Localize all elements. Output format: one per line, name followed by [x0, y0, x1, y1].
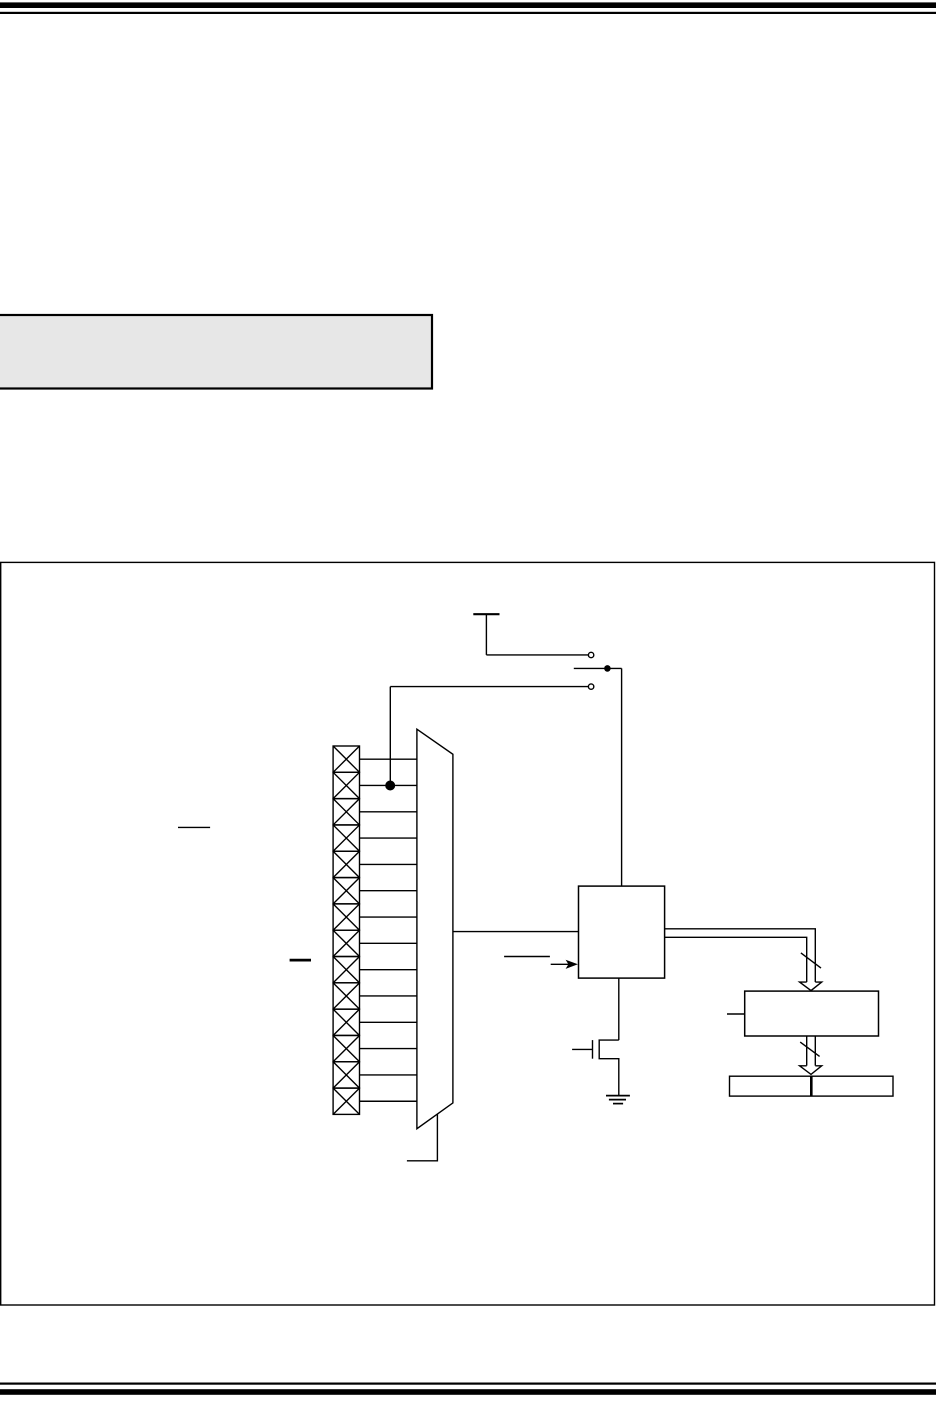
resistor ladder cell 7 (crossed box) [333, 904, 359, 930]
resistor ladder cell 8 (crossed box) [333, 930, 359, 956]
wire: ladder tap 14 to mux input [360, 1100, 418, 1102]
wire: ADC bottom to transistor drain [618, 978, 620, 1040]
figure frame [1, 562, 935, 1305]
wire: ladder tap 10 to mux input [360, 995, 418, 997]
register 1 left lead line [727, 1013, 745, 1015]
switch throw contact B (open circle) [588, 684, 593, 689]
bus width slash 1 [801, 953, 821, 968]
junction dot on switch pole [604, 665, 611, 672]
resistor ladder cell 6 (crossed box) [333, 878, 359, 904]
wire: ladder tap 6 to mux input [360, 890, 418, 892]
resistor ladder cell 9 (crossed box) [333, 957, 359, 983]
bus width slash 2 [800, 1042, 819, 1056]
bus arrowhead 2 (hollow) [800, 1066, 822, 1075]
wire: ladder tap 3 to mux input [360, 811, 418, 813]
transistor (N-MOSFET sampling switch) [572, 1040, 619, 1095]
label dash (left column) [290, 959, 311, 962]
register pair box (split high:low) [730, 1076, 894, 1096]
wire: ladder tap 7 to mux input [360, 916, 418, 918]
switch throw contact A (open circle) [588, 652, 593, 657]
resistor ladder cell 1 (crossed box) [333, 746, 359, 772]
resistor ladder cell 11 (crossed box) [333, 1009, 359, 1035]
label overline (left column) [178, 826, 210, 828]
wire: vertical down to ladder tap 2 [389, 687, 391, 786]
note box (shaded) [0, 315, 432, 389]
signal label overline (GO/DONE) [504, 956, 550, 958]
resistor ladder cell 5 (crossed box) [333, 851, 359, 877]
wire: mux select input (bottom) [407, 1114, 438, 1161]
wire: switch throw B to ladder tap (horizontal) [390, 686, 588, 688]
wire: ladder tap 2 to mux input [360, 784, 418, 786]
header rule thin [0, 12, 936, 14]
resistor ladder cell 10 (crossed box) [333, 983, 359, 1009]
switch pole wire [574, 667, 622, 669]
power rail VDD symbol [473, 614, 499, 655]
wire: ladder tap 12 to mux input [360, 1048, 418, 1050]
ground symbol [606, 1096, 630, 1104]
resistor ladder cell 14 (crossed box) [333, 1088, 359, 1114]
wire: mux output to ADC block [453, 931, 579, 933]
resistor ladder cell 2 (crossed box) [333, 772, 359, 798]
analog mux (trapezoid) [417, 729, 453, 1128]
bus arrowhead 1 (hollow) [800, 982, 822, 991]
bus: ADC output to result register (double line) [665, 929, 816, 982]
wire: ladder tap 1 to mux input [360, 758, 418, 760]
footer rule thick [0, 1389, 936, 1395]
resistor ladder cell 12 (crossed box) [333, 1035, 359, 1061]
wire: ladder tap 13 to mux input [360, 1074, 418, 1076]
result register box 1 [745, 991, 879, 1036]
wire: ladder tap 11 to mux input [360, 1021, 418, 1023]
wire: ladder tap 5 to mux input [360, 863, 418, 865]
footer rule thin [0, 1383, 936, 1385]
ADC block [579, 886, 665, 978]
wire: VDD rail to switch throw A [486, 654, 588, 656]
wire: ladder tap 4 to mux input [360, 837, 418, 839]
junction dot on ladder tap 2 [385, 781, 395, 791]
resistor ladder cell 13 (crossed box) [333, 1062, 359, 1088]
wire: switch pole down to ADC block top [621, 668, 623, 886]
resistor ladder cell 3 (crossed box) [333, 799, 359, 825]
bus: register 1 to register pair (double line) [807, 1036, 816, 1066]
resistor ladder cell 4 (crossed box) [333, 825, 359, 851]
header rule thick [0, 2, 936, 8]
wire: ladder tap 8 to mux input [360, 942, 418, 944]
arrow: GO/DONE input into ADC [551, 963, 569, 965]
register pair divider [810, 1076, 813, 1096]
wire: ladder tap 9 to mux input [360, 969, 418, 971]
